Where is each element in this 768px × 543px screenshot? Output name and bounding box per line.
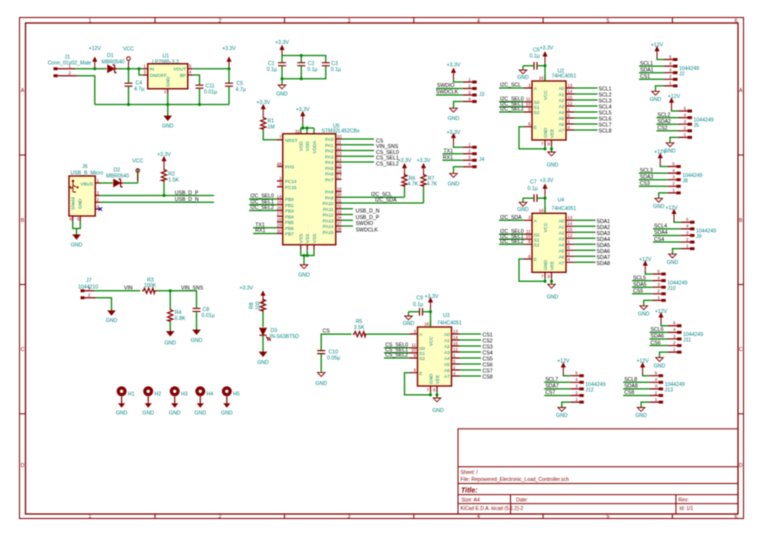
svg-text:+12V: +12V	[665, 205, 678, 211]
wire CS2	[656, 130, 678, 132]
svg-text:CS8: CS8	[483, 375, 493, 381]
junction	[306, 127, 309, 130]
wire SCL5	[632, 280, 652, 282]
wire RX1	[253, 233, 277, 235]
svg-text:4: 4	[477, 18, 480, 24]
svg-text:15: 15	[277, 200, 282, 205]
svg-text:Id: 1/1: Id: 1/1	[679, 506, 693, 512]
svg-text:J8: J8	[682, 178, 688, 184]
mounting hole H5	[221, 386, 240, 416]
svg-text:GND: GND	[116, 411, 128, 417]
svg-text:GND: GND	[448, 181, 460, 187]
svg-text:GND: GND	[142, 411, 154, 417]
svg-text:J13: J13	[665, 388, 673, 394]
svg-text:13: 13	[337, 151, 342, 156]
capacitor C6	[530, 48, 540, 60]
capacitor C4	[125, 69, 145, 105]
svg-text:10: 10	[337, 134, 342, 139]
svg-text:SDA1: SDA1	[640, 67, 654, 73]
wire CS_SEL0 to U3	[384, 347, 410, 349]
wire ground rail	[95, 104, 229, 106]
svg-text:SCL3: SCL3	[640, 168, 653, 174]
ground	[191, 330, 203, 344]
wire I2C_SEL0	[249, 198, 277, 200]
capacitor C11	[196, 84, 218, 105]
wire SWDCLK stub	[342, 225, 354, 227]
ground	[298, 265, 310, 279]
wire CS6	[650, 345, 669, 347]
svg-text:H3: H3	[181, 391, 188, 397]
svg-text:0.05µ: 0.05µ	[327, 356, 340, 362]
svg-text:2: 2	[219, 18, 222, 24]
svg-text:SWDCLK: SWDCLK	[436, 90, 459, 96]
wire J7 pin2 to gnd	[96, 298, 112, 311]
svg-text:VDD: VDD	[299, 141, 304, 151]
wire VIN	[94, 290, 140, 292]
svg-text:16: 16	[337, 168, 342, 173]
wire CS_SEL1 to U3	[384, 352, 410, 354]
wire U2 outputs	[574, 88, 598, 130]
svg-text:4.7K: 4.7K	[427, 182, 438, 188]
svg-text:PA6: PA6	[325, 172, 334, 177]
power +3.3V	[222, 46, 236, 69]
svg-text:U3: U3	[443, 313, 450, 319]
svg-text:MBR0540: MBR0540	[106, 174, 129, 180]
usb icon	[70, 180, 79, 192]
svg-text:GND: GND	[403, 321, 415, 327]
svg-text:0.1µ: 0.1µ	[530, 54, 540, 60]
wire SDA6	[650, 338, 669, 340]
wire TX1	[253, 227, 277, 229]
wire I2C_SEL1 to U4	[499, 238, 524, 240]
svg-text:GND: GND	[667, 260, 679, 266]
svg-text:I2C_SDA: I2C_SDA	[375, 198, 397, 204]
svg-text:J7: J7	[86, 278, 92, 284]
svg-text:C: C	[739, 347, 743, 353]
ground	[162, 116, 174, 130]
power +3.3V (R8)	[239, 286, 265, 303]
wire USB_D_P	[100, 195, 214, 197]
wire I2C_SDA to U4	[499, 219, 524, 221]
svg-text:PA3: PA3	[325, 154, 334, 159]
svg-text:CS_SEL2: CS_SEL2	[385, 353, 408, 359]
svg-text:C: C	[21, 347, 25, 353]
capacitor C3	[322, 61, 341, 73]
connector J9 1044249	[669, 209, 717, 258]
wire CS8	[623, 395, 649, 397]
wire SDA2	[656, 123, 678, 125]
svg-text:KiCad E.D.A. kicad (5.1.2)-2: KiCad E.D.A. kicad (5.1.2)-2	[461, 506, 524, 512]
power +3.3V (VDD)	[296, 107, 310, 123]
capacitor C1	[267, 61, 286, 73]
wire R1 to NRST	[263, 130, 277, 140]
capacitor C9	[413, 295, 423, 308]
svg-text:RX1: RX1	[443, 155, 453, 161]
svg-text:+3.3V: +3.3V	[447, 63, 461, 69]
svg-text:GND: GND	[432, 408, 444, 414]
svg-text:26: 26	[277, 205, 282, 210]
svg-text:SWDCLK: SWDCLK	[356, 227, 379, 233]
junction	[281, 77, 284, 80]
svg-text:0.1µ: 0.1µ	[331, 67, 341, 73]
wire CS7	[544, 395, 570, 397]
svg-text:0.1µ: 0.1µ	[267, 67, 277, 73]
svg-text:VIN: VIN	[124, 285, 133, 291]
svg-text:VSS: VSS	[305, 234, 310, 243]
wire D1 to U1 IN	[118, 68, 143, 70]
svg-text:+3.3V: +3.3V	[417, 158, 431, 164]
svg-text:D1: D1	[107, 53, 114, 59]
svg-text:SDA8: SDA8	[624, 384, 638, 390]
svg-text:GND: GND	[556, 413, 568, 419]
svg-text:TX1: TX1	[444, 148, 454, 154]
mounting hole H2	[142, 386, 161, 416]
wire D2 to VCC	[124, 169, 138, 183]
junction	[138, 67, 141, 70]
connector J7	[78, 278, 98, 299]
svg-text:SDA2: SDA2	[657, 119, 671, 125]
wire SCL1	[639, 65, 664, 67]
svg-text:CS_SEL2: CS_SEL2	[376, 161, 399, 167]
svg-text:PA8: PA8	[325, 190, 334, 195]
wire R6 to I2C_SCL	[404, 187, 406, 197]
svg-text:6.8K: 6.8K	[175, 316, 186, 322]
svg-text:SCL8: SCL8	[599, 129, 612, 135]
wire SDA3	[639, 179, 668, 181]
svg-text:4: 4	[477, 514, 480, 520]
svg-text:CS8: CS8	[624, 390, 634, 396]
svg-text:0.01µ: 0.01µ	[204, 90, 217, 96]
svg-text:Title:: Title:	[461, 487, 478, 494]
svg-text:5: 5	[607, 514, 610, 520]
svg-text:SCL5: SCL5	[633, 275, 646, 281]
svg-text:+12V: +12V	[654, 150, 667, 156]
svg-text:H4: H4	[207, 391, 214, 397]
svg-text:+3.3V: +3.3V	[540, 178, 554, 184]
resistor R5 3.5K	[353, 319, 367, 337]
svg-text:+3.3V: +3.3V	[256, 100, 270, 106]
wire VBUS to D2	[100, 182, 113, 184]
svg-text:0.1µ: 0.1µ	[413, 302, 423, 308]
svg-text:PH3: PH3	[285, 165, 294, 170]
wire shield to gnd	[73, 221, 81, 235]
svg-text:J12: J12	[585, 388, 593, 394]
svg-text:PA2: PA2	[325, 149, 334, 154]
svg-text:BP: BP	[180, 73, 186, 78]
svg-text:SDA5: SDA5	[633, 282, 647, 288]
svg-text:6: 6	[735, 514, 738, 520]
junction	[303, 254, 306, 257]
wire I2C_SEL0 to U2	[499, 101, 524, 103]
svg-text:IN: IN	[150, 67, 155, 72]
junction	[166, 103, 169, 106]
svg-text:D: D	[739, 463, 743, 469]
junction	[228, 67, 231, 70]
svg-text:GND: GND	[71, 243, 83, 249]
svg-text:+3.3V: +3.3V	[275, 40, 289, 46]
svg-text:GND: GND	[315, 381, 327, 387]
ground	[315, 373, 327, 387]
svg-text:SCL1: SCL1	[640, 61, 653, 67]
svg-text:U4: U4	[558, 197, 565, 203]
svg-text:PA10: PA10	[323, 201, 334, 206]
wire CS to R5	[321, 334, 351, 350]
svg-text:A: A	[21, 88, 25, 94]
power VCC	[132, 159, 143, 181]
svg-text:J11: J11	[683, 338, 691, 344]
wire cap bank top rail	[282, 56, 326, 64]
pin numbers right	[337, 134, 342, 232]
svg-text:+3.3V: +3.3V	[540, 46, 554, 52]
wire VDD feeds	[301, 123, 314, 134]
resistor R3 100K	[142, 277, 157, 293]
multiplexer U2 74HC4051	[519, 52, 574, 156]
svg-text:VCC: VCC	[132, 159, 143, 165]
svg-text:+12V: +12V	[639, 257, 652, 263]
svg-text:VIN_SNS: VIN_SNS	[181, 285, 204, 291]
svg-text:18: 18	[337, 186, 342, 191]
svg-text:74HC4051: 74HC4051	[552, 206, 577, 212]
power +3.3V (R7)	[417, 158, 431, 175]
svg-text:17: 17	[337, 174, 342, 179]
svg-text:1.5K: 1.5K	[168, 178, 179, 184]
wire R7 to I2C_SDA	[423, 187, 425, 203]
svg-text:GND: GND	[195, 411, 207, 417]
resistor R2 1.5K	[161, 168, 179, 183]
wire SDA1	[639, 72, 664, 74]
svg-text:14: 14	[277, 194, 282, 199]
connector J2 1044249	[652, 46, 700, 95]
wire SDA4	[653, 234, 681, 236]
svg-text:C9: C9	[416, 295, 423, 301]
svg-text:GND: GND	[638, 312, 650, 318]
svg-text:J9: J9	[696, 234, 702, 240]
svg-text:I2C_SEL2: I2C_SEL2	[500, 107, 524, 113]
capacitor C8	[193, 307, 215, 330]
wire U4 outputs	[574, 220, 596, 262]
svg-text:Rev:: Rev:	[679, 497, 689, 503]
svg-text:74HC4051: 74HC4051	[552, 74, 577, 80]
svg-text:J4: J4	[479, 157, 485, 163]
wire ON/OFF elbow	[139, 69, 143, 75]
wire SCL7	[544, 381, 570, 383]
MCU U5 STM32L452CBx	[277, 123, 360, 249]
svg-text:+12V: +12V	[89, 46, 102, 52]
svg-text:PB1: PB1	[285, 203, 294, 208]
capacitor C5	[225, 69, 246, 105]
svg-text:31: 31	[337, 198, 342, 203]
svg-text:SDA6: SDA6	[651, 334, 665, 340]
wire CS_SEL2 to U3	[384, 357, 410, 359]
wire VIN_SNS	[342, 144, 375, 146]
svg-text:+3.3V: +3.3V	[447, 130, 461, 136]
svg-text:SDA8: SDA8	[597, 261, 611, 267]
svg-text:PA7: PA7	[325, 177, 334, 182]
svg-text:CS3: CS3	[640, 181, 650, 187]
connector J8 1044249	[655, 153, 703, 202]
svg-text:GND: GND	[517, 207, 529, 213]
svg-text:5: 5	[607, 18, 610, 24]
ground	[257, 352, 269, 366]
power +3.3V	[275, 40, 289, 57]
svg-text:11: 11	[337, 140, 342, 145]
svg-text:J6: J6	[82, 164, 88, 170]
power +3.3V (R1)	[256, 100, 270, 116]
svg-text:SDA4: SDA4	[654, 230, 668, 236]
svg-text:1: 1	[89, 514, 92, 520]
svg-text:+12V: +12V	[557, 359, 570, 365]
wire I2C_SEL0 to U4	[499, 233, 524, 235]
wire SCL6	[650, 331, 669, 333]
svg-text:J3: J3	[479, 92, 485, 98]
svg-text:PB4: PB4	[285, 214, 294, 219]
svg-text:29: 29	[277, 223, 282, 228]
row tick marks right	[738, 155, 744, 414]
svg-text:USB_D_N: USB_D_N	[356, 209, 380, 215]
svg-text:15: 15	[337, 163, 342, 168]
svg-text:GND: GND	[257, 360, 269, 366]
svg-text:GND: GND	[547, 294, 559, 300]
svg-text:GND: GND	[635, 413, 647, 419]
svg-text:GND: GND	[276, 92, 288, 98]
svg-text:VBUS: VBUS	[81, 181, 94, 186]
junction	[301, 127, 304, 130]
svg-text:0.01µ: 0.01µ	[202, 313, 215, 319]
svg-text:VCC: VCC	[123, 47, 134, 53]
svg-text:PB5: PB5	[285, 220, 294, 225]
svg-text:32: 32	[295, 129, 300, 134]
svg-text:Sheet: /: Sheet: /	[461, 470, 479, 476]
wire SCL4	[653, 228, 681, 230]
svg-text:GND: GND	[653, 204, 665, 210]
svg-text:SCL4: SCL4	[654, 224, 667, 230]
svg-text:A: A	[739, 88, 743, 94]
svg-text:32: 32	[337, 204, 342, 209]
svg-text:H1: H1	[128, 391, 135, 397]
junction	[306, 254, 309, 257]
column tick marks bottom	[155, 514, 672, 519]
svg-text:H5: H5	[233, 391, 240, 397]
wire RX1	[443, 159, 463, 161]
svg-text:0.1µ: 0.1µ	[307, 67, 317, 73]
svg-text:VSS: VSS	[299, 234, 304, 243]
wire USB_D_N stub	[342, 208, 354, 210]
svg-text:37: 37	[337, 221, 342, 226]
no-connect ID pin	[99, 207, 103, 211]
svg-text:PA1: PA1	[325, 143, 334, 148]
svg-text:+3.3V: +3.3V	[296, 107, 310, 113]
svg-text:CS2: CS2	[657, 126, 667, 132]
svg-text:PA15: PA15	[323, 230, 334, 235]
wire CS1	[639, 78, 664, 80]
svg-text:CS5: CS5	[633, 289, 643, 295]
wire CS_SEL2	[342, 161, 375, 163]
wire I2C_SEL1	[249, 204, 277, 206]
connector J6 USB_B_Micro	[69, 164, 103, 222]
wire U1 BP to C11	[193, 75, 200, 85]
svg-text:6: 6	[735, 18, 738, 24]
svg-text:+12V: +12V	[651, 43, 664, 49]
wire I2C_SEL2 to U4	[499, 243, 524, 245]
svg-text:SCL2: SCL2	[657, 112, 670, 118]
svg-text:+3.3V: +3.3V	[222, 46, 236, 52]
wire SWDIO	[436, 88, 463, 90]
wire J1 pin1 to D1	[75, 68, 107, 70]
mounting hole H4	[195, 386, 214, 416]
junction	[163, 194, 166, 197]
svg-text:PA5: PA5	[325, 166, 334, 171]
svg-text:Shield: Shield	[71, 197, 76, 210]
wire R8 to D3	[262, 312, 264, 327]
svg-text:I2C_SCL: I2C_SCL	[500, 83, 521, 89]
svg-text:SDA7: SDA7	[545, 384, 559, 390]
svg-text:48: 48	[277, 161, 282, 166]
svg-text:R8: R8	[249, 302, 255, 309]
svg-text:USB_D_P: USB_D_P	[356, 215, 380, 221]
resistor R4 6.8K	[168, 291, 186, 323]
svg-text:I2C_SEL2: I2C_SEL2	[250, 205, 274, 211]
svg-text:1: 1	[89, 18, 92, 24]
multiplexer U3 74HC4051	[405, 298, 460, 402]
svg-text:NRST: NRST	[285, 138, 298, 143]
ground	[106, 311, 118, 324]
svg-text:Size: A4: Size: A4	[461, 497, 480, 503]
svg-text:GND: GND	[106, 318, 118, 324]
wire TX1	[443, 153, 463, 155]
svg-text:PB7: PB7	[285, 232, 294, 237]
wire SCL8	[623, 381, 649, 383]
wire I2C_SEL1 to U2	[499, 106, 524, 108]
wire U3 outputs	[460, 334, 482, 376]
title block text	[461, 470, 694, 512]
svg-text:PC15: PC15	[285, 185, 297, 190]
wire CS_SEL1	[342, 155, 375, 157]
svg-text:SCL8: SCL8	[624, 377, 637, 383]
svg-text:IN-S63BT5D: IN-S63BT5D	[270, 334, 300, 340]
svg-text:14: 14	[337, 157, 342, 162]
connector J10 1044249	[640, 261, 688, 310]
connector J4 UART	[450, 133, 485, 177]
wire I2C_SEL2 to U2	[499, 111, 524, 113]
wire R4 to gnd	[169, 322, 171, 331]
wire CS3	[639, 185, 668, 187]
wire CS_SEL0	[342, 150, 375, 152]
title block grid	[458, 429, 738, 514]
resistor R8 100	[249, 298, 266, 312]
svg-text:+12V: +12V	[655, 309, 668, 315]
regulator U1 LP2985-3.3	[143, 54, 193, 95]
svg-text:74HC4051: 74HC4051	[437, 320, 462, 326]
svg-text:4.7µ: 4.7µ	[134, 87, 144, 93]
wire J1 pin2 to ground rail	[77, 76, 95, 105]
svg-text:+12V: +12V	[668, 94, 681, 100]
wire D3 to gnd	[262, 335, 264, 352]
column tick marks top	[155, 18, 672, 24]
wire SWDCLK	[436, 94, 463, 96]
svg-text:B: B	[21, 218, 25, 224]
junction	[93, 67, 96, 70]
svg-text:Date:: Date:	[516, 497, 528, 503]
svg-text:4.7K: 4.7K	[408, 182, 419, 188]
svg-text:PC14: PC14	[285, 179, 297, 184]
capacitor C10	[317, 350, 340, 373]
wire I2C_SDA	[342, 202, 424, 204]
wire I2C_SCL	[342, 196, 405, 198]
svg-text:+3.3V: +3.3V	[398, 158, 412, 164]
wire U1 VOUT to +3.3V	[193, 68, 229, 70]
capacitor C2	[297, 61, 317, 73]
svg-text:28: 28	[277, 217, 282, 222]
